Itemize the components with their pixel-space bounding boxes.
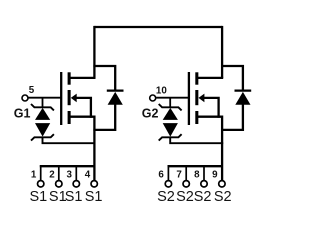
pin 8 terminal circle xyxy=(201,181,207,187)
wire zener Z2 bottom return xyxy=(170,137,223,143)
svg-text:9: 9 xyxy=(212,170,218,181)
wire D1 top branch xyxy=(93,66,115,91)
svg-text:S1: S1 xyxy=(85,189,103,205)
pin 3 terminal circle xyxy=(73,181,79,187)
pin 2 terminal circle xyxy=(56,181,62,187)
svg-text:S2: S2 xyxy=(194,189,212,205)
svg-text:1: 1 xyxy=(31,170,37,181)
svg-text:2: 2 xyxy=(49,170,55,181)
transistor Q1 gate bar xyxy=(60,72,62,125)
pin 1 terminal circle xyxy=(38,181,44,187)
pin 9 terminal circle xyxy=(219,181,225,187)
svg-text:S2: S2 xyxy=(176,189,194,205)
svg-text:5: 5 xyxy=(29,85,35,96)
zener Z2a cathode bar with bent ends xyxy=(159,104,182,110)
zener Z2b triangle (apex down) xyxy=(163,123,178,137)
zener Z1b cathode bar with bent ends xyxy=(31,134,54,140)
wire Q2 drain lead xyxy=(197,77,223,79)
zener Z1a triangle (apex up) xyxy=(35,108,50,120)
wire pin 3 stub xyxy=(75,165,77,180)
wire gate lead G2 xyxy=(156,97,189,99)
wire source bus S1 xyxy=(40,165,95,167)
pin 5 terminal circle xyxy=(22,95,28,101)
wire gate lead G1 xyxy=(28,97,61,99)
diode D1 body diode cathode bar xyxy=(107,89,124,91)
wire Q1 source line xyxy=(70,117,95,181)
svg-text:S1: S1 xyxy=(30,189,48,205)
transistor Q2 channel dashes xyxy=(195,72,198,124)
wire D2 top branch xyxy=(221,66,243,91)
wire Q2 body-to-source xyxy=(203,98,219,118)
transistor Q2 gate bar xyxy=(188,72,190,125)
wire D2 bottom return xyxy=(221,104,243,130)
pin 6 terminal circle xyxy=(165,181,171,187)
wire zener Z2 top stub xyxy=(169,98,171,108)
svg-text:G1: G1 xyxy=(14,107,31,121)
svg-text:3: 3 xyxy=(66,170,72,181)
zener Z2b cathode bar with bent ends xyxy=(159,134,182,140)
wire drain interconnect bus (top) xyxy=(94,26,222,28)
wire pin 2 stub xyxy=(58,165,60,180)
pin 10 terminal circle xyxy=(150,95,156,101)
wire pin 8 stub xyxy=(203,165,205,180)
diode D1 body diode triangle xyxy=(108,92,123,105)
svg-text:6: 6 xyxy=(158,170,164,181)
wire pin 7 stub xyxy=(185,165,187,180)
wire Q1 drain riser xyxy=(93,26,95,78)
svg-text:G2: G2 xyxy=(142,107,159,121)
pin 7 terminal circle xyxy=(183,181,189,187)
wire Q2 drain riser xyxy=(221,26,223,78)
transistor Q1 channel dashes xyxy=(68,72,71,124)
svg-text:S1: S1 xyxy=(65,189,83,205)
wire zener Z1 top stub xyxy=(42,98,44,108)
svg-text:S2: S2 xyxy=(157,189,175,205)
zener Z1b triangle (apex down) xyxy=(35,123,50,137)
diode D2 body diode cathode bar xyxy=(235,89,252,91)
wire Q1 body-to-source xyxy=(75,98,91,118)
transistor Q2 body arrow xyxy=(199,94,205,103)
wire D1 bottom return xyxy=(93,104,115,130)
zener Z2a triangle (apex up) xyxy=(163,108,178,120)
wire Q1 drain lead xyxy=(70,77,96,79)
svg-text:7: 7 xyxy=(176,170,182,181)
wire Q2 source line xyxy=(197,117,222,181)
svg-text:S2: S2 xyxy=(214,189,232,205)
wire pin 1 stub xyxy=(40,165,42,180)
svg-text:4: 4 xyxy=(85,170,91,181)
svg-text:10: 10 xyxy=(156,86,167,97)
pin 4 terminal circle xyxy=(91,181,97,187)
svg-text:8: 8 xyxy=(194,170,200,181)
wire source bus S2 xyxy=(168,165,223,167)
wire pin 6 stub xyxy=(167,165,169,180)
zener Z1a cathode bar with bent ends xyxy=(31,104,54,110)
diode D2 body diode triangle xyxy=(235,92,250,105)
wire zener Z1 bottom return xyxy=(43,137,96,143)
transistor Q1 body arrow xyxy=(71,94,77,103)
